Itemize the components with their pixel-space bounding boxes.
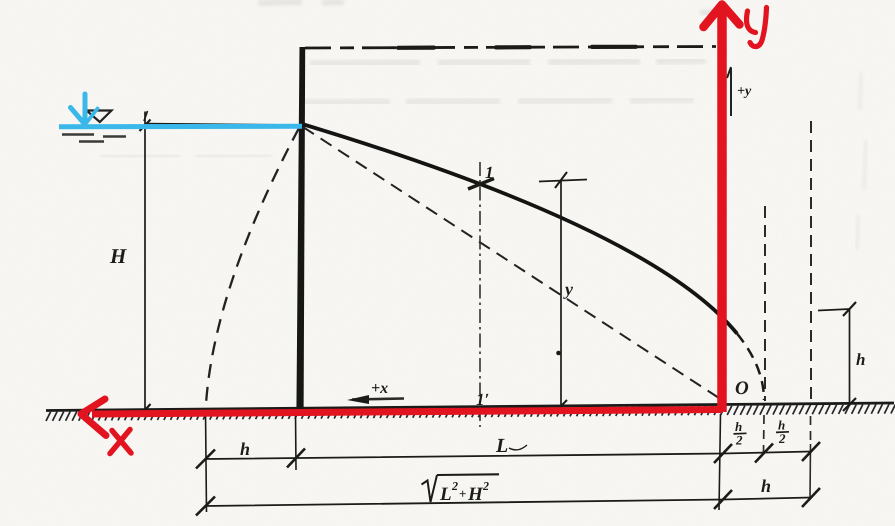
row1 tick 811 bbox=[802, 442, 820, 461]
nappe curve solid bbox=[302, 124, 737, 334]
row2 tick 811 bbox=[802, 488, 820, 507]
svg-text:y: y bbox=[563, 279, 574, 299]
wall bbox=[296, 47, 305, 412]
dashed vertical at h below ground bbox=[810, 416, 812, 444]
y measure top bar bbox=[539, 180, 587, 182]
ground line bbox=[46, 403, 894, 411]
dashed vertical at h bbox=[810, 121, 812, 402]
fraction h/2 second bbox=[776, 418, 789, 447]
dashed vertical at h/2 below ground bbox=[763, 415, 766, 452]
row1 tick 723 bbox=[714, 444, 732, 463]
water surface dash 3 bbox=[79, 140, 104, 143]
faint bleed-through row 1 bbox=[310, 60, 706, 64]
row1 tick 205 bbox=[196, 450, 215, 469]
extension h below to dims bbox=[809, 444, 812, 500]
row2 tick 723 bbox=[714, 490, 732, 509]
svg-text:H: H bbox=[467, 484, 484, 505]
red y arrowhead bbox=[704, 5, 740, 28]
svg-text:H: H bbox=[109, 244, 127, 268]
svg-text:2: 2 bbox=[735, 433, 743, 448]
dim row1 line bbox=[205, 452, 811, 460]
dashed vertical at h/2 bbox=[764, 206, 766, 401]
nappe curve dashed tail bbox=[737, 334, 764, 400]
svg-text:+x: +x bbox=[371, 380, 388, 397]
row1 tick 764 bbox=[755, 444, 773, 463]
ground hatching bbox=[46, 404, 895, 421]
red X label bbox=[110, 430, 131, 454]
water level nabla symbol bbox=[87, 111, 112, 123]
y measure bottom slash bbox=[555, 400, 567, 412]
right h bottom slash bbox=[843, 398, 856, 411]
right h top bar bbox=[818, 309, 850, 311]
L leader swoosh bbox=[509, 445, 527, 450]
H tick bottom bbox=[140, 404, 151, 416]
top dashed crest line bbox=[305, 47, 716, 49]
svg-text:h: h bbox=[240, 439, 250, 459]
blue water line bbox=[59, 124, 302, 130]
sqrt radical sign bbox=[422, 475, 438, 502]
faint smudge left bbox=[100, 155, 272, 157]
blue arrow barb left bbox=[71, 108, 86, 125]
blue arrow barb right bbox=[85, 109, 98, 125]
row1 tick 296 bbox=[287, 449, 305, 468]
svg-text:1: 1 bbox=[485, 163, 494, 182]
sqrt expression text bbox=[439, 479, 489, 505]
water surface dash 1 bbox=[62, 133, 94, 136]
svg-text:h: h bbox=[761, 476, 771, 496]
water line black bbox=[145, 124, 301, 126]
svg-text:+: + bbox=[459, 486, 466, 501]
crest line thick dash blobs bbox=[398, 47, 636, 48]
y measure dot bbox=[556, 351, 561, 356]
point 1 tick bar bbox=[468, 179, 494, 190]
blue arrow shaft bbox=[83, 94, 88, 125]
H dimension line bbox=[144, 112, 146, 410]
red y label bbox=[746, 8, 766, 47]
red x arrowhead bbox=[81, 399, 106, 436]
fraction h/2 first bbox=[734, 419, 747, 448]
extension line under origin bbox=[719, 414, 721, 510]
extension line wall base bbox=[295, 412, 298, 470]
svg-text:L: L bbox=[439, 484, 452, 505]
faint bleed-through row 2 bbox=[302, 99, 694, 103]
svg-text:L: L bbox=[495, 435, 508, 457]
svg-text:O: O bbox=[735, 378, 749, 399]
+y arrow bbox=[730, 68, 732, 116]
upstream mirrored parabola dashed bbox=[206, 128, 299, 404]
red y axis shaft bbox=[717, 9, 727, 412]
H top hook bbox=[144, 111, 148, 121]
+x arrow bbox=[352, 399, 404, 400]
red x axis shaft bbox=[92, 410, 722, 415]
svg-text:2: 2 bbox=[482, 479, 489, 493]
H tick top bbox=[140, 120, 151, 132]
sqrt vinculum bbox=[437, 473, 499, 476]
nappe chord dashed bbox=[303, 127, 719, 398]
svg-text:+y: +y bbox=[737, 84, 752, 99]
y measure line bbox=[560, 180, 562, 408]
svg-text:1′: 1′ bbox=[476, 390, 489, 409]
svg-text:2: 2 bbox=[451, 479, 458, 493]
faint smudge right bbox=[857, 72, 866, 250]
svg-text:h: h bbox=[856, 350, 865, 369]
right h top slash bbox=[843, 302, 856, 316]
extension line far left dim bbox=[206, 411, 207, 512]
water surface dash 2 bbox=[103, 135, 126, 138]
y measure top slash bbox=[555, 172, 567, 188]
faint top edge marks bbox=[258, 2, 716, 13]
right h measure line bbox=[849, 309, 851, 406]
row2 tick 205 bbox=[196, 497, 215, 516]
svg-text:2: 2 bbox=[778, 431, 786, 446]
dim row2 line bbox=[205, 498, 811, 507]
centerline of point 1 (dash-dot) bbox=[479, 162, 481, 427]
